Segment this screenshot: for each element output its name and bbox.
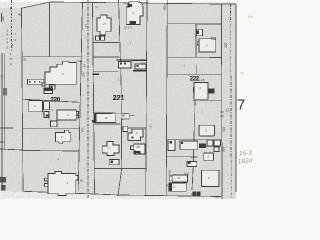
svg-text:102: 102 — [82, 72, 86, 77]
building: block220 small square — [51, 121, 58, 127]
dark fill: flat-iron lower rect — [129, 21, 136, 24]
dark fill: shed south dot — [111, 161, 114, 164]
block 220 lot line y151 — [23, 150, 79, 153]
block 221 dark building-row edge y60 — [116, 59, 146, 61]
building: block222 long shed — [180, 141, 198, 149]
block 221 lot line y42 — [93, 41, 119, 43]
street 2 right edge — [93, 2, 95, 193]
svg-text:A: A — [10, 62, 12, 66]
building: block220 big store bottom — [48, 172, 78, 196]
building: block222 dwelling n — [199, 39, 216, 52]
svg-text:N: N — [96, 5, 98, 9]
building: block222 cluster rect b — [214, 140, 221, 146]
building: block221 outbuilding a — [96, 36, 100, 40]
building: block222 dwelling s of cluster — [204, 153, 214, 160]
building: block220 se tabs — [76, 112, 78, 115]
block 221 interior lot line — [118, 0, 122, 196]
building: block221 2B left tab — [131, 146, 134, 150]
dark fill: block222 small sq left mark — [197, 31, 199, 35]
building: block220 dwelling se — [57, 110, 76, 120]
dark fill: bottom-left building blob b — [1, 185, 6, 191]
svg-text:30: 30 — [80, 178, 84, 182]
left edge lot line a — [1, 53, 3, 190]
street 1 dashed centerline — [11, 0, 13, 52]
street 4 right line — [235, 4, 237, 192]
block 221 lot line y66 — [135, 65, 147, 67]
dark fill: JF top edge — [94, 113, 111, 114]
dark fill: long shed dot — [181, 142, 183, 144]
dark fill: left margin blob — [3, 88, 7, 96]
building: block221 stepped dwelling — [102, 142, 119, 156]
faint smudge right margin low — [240, 72, 244, 74]
svg-text:40: 40 — [18, 13, 22, 17]
svg-text:318: 318 — [222, 146, 226, 152]
dark fill: small shed dot — [51, 86, 53, 88]
building: block221 shed on lot line — [123, 126, 128, 131]
building: big store left tab b — [45, 184, 49, 187]
street 1 right edge — [22, 8, 24, 191]
building: block221 outbuilding b — [101, 36, 105, 40]
building: block220 dark-top store — [44, 88, 53, 94]
building: block222 cluster rect c — [214, 147, 219, 152]
bottom neatline — [23, 191, 221, 196]
svg-text:320: 320 — [224, 42, 228, 48]
street 4 left edge — [221, 4, 224, 199]
dark fill: dark-top of block220 store — [44, 88, 52, 91]
block 221 dark segment y70.7 — [133, 70, 147, 72]
building: block221 JF store — [94, 113, 115, 122]
left edge lot line b — [3, 53, 5, 150]
dark fill: store row b dot — [137, 65, 139, 67]
block 221 lot line y57 — [93, 56, 120, 58]
svg-text:240: 240 — [1, 16, 5, 21]
walkway diagonal — [43, 113, 53, 123]
block 220 lot line y99 — [22, 99, 80, 102]
street 3 right edge — [166, 0, 167, 196]
street 2 dashed centerline — [87, 0, 89, 199]
svg-text:292: 292 — [191, 192, 196, 196]
building: block220 big upper building — [45, 62, 76, 85]
building: block220 dwelling with bay — [56, 130, 71, 143]
svg-text:10 2 4: 10 2 4 — [124, 26, 132, 30]
building: block220 tiny shed — [42, 83, 45, 86]
building: big store left tab a — [45, 178, 49, 181]
building: block222 w sliver — [170, 176, 172, 181]
building: block221 cross-plan dwelling — [97, 15, 111, 35]
dark fill: small store dot — [188, 162, 191, 164]
building: block222 dwelling sw — [169, 183, 187, 191]
street 2 left edge — [78, 2, 82, 191]
svg-text:220: 220 — [50, 96, 61, 103]
building: block221 store row b — [135, 64, 146, 69]
svg-text:102: 102 — [81, 127, 85, 132]
block 222 interior lot line x196 mid — [195, 65, 197, 74]
building: block222 dwelling n top notch — [212, 37, 215, 39]
building: block222 small square n — [197, 29, 203, 36]
building: block222 dwelling mid — [194, 82, 208, 99]
svg-text:2B: 2B — [137, 145, 141, 149]
block 221 lot line y115 segment — [128, 115, 135, 117]
building: block221 flat-iron corner building — [126, 2, 143, 25]
building: block220 porch structure a — [44, 102, 50, 110]
svg-text:27: 27 — [103, 22, 107, 26]
dark fill: L dwelling dot — [132, 136, 134, 138]
block 222 interior lot line x196 top — [195, 24, 197, 57]
building: block221 dwelling 2B — [134, 144, 145, 154]
building: block222 mid left tab — [192, 87, 195, 92]
dark fill: bottom-left building blob a — [0, 177, 6, 183]
svg-text:316: 316 — [149, 124, 153, 129]
left lot line y128 — [0, 127, 13, 129]
dark fill: 2B inner sliver — [134, 151, 136, 154]
dark fill: street2 top tick at y120 — [92, 120, 94, 122]
dark fill: store row a dots — [120, 63, 122, 65]
building: block220 shed row — [28, 79, 44, 84]
building: block220 small shed with dot — [50, 85, 56, 89]
top border line — [50, 2, 236, 4]
building: block221 store row a — [119, 62, 132, 68]
block 221 lot line y124 — [94, 123, 121, 125]
dark fill: block222 cluster dark rect — [199, 144, 206, 149]
dark fill: stepped bld bottom marks — [136, 151, 138, 153]
svg-text:290: 290 — [214, 195, 219, 199]
svg-text:40: 40 — [9, 6, 13, 10]
building: block221 shed south — [109, 159, 119, 164]
building: block220 dwelling nw — [29, 101, 43, 112]
svg-text:322: 322 — [222, 126, 226, 132]
dark fill: block222 bottom square b — [197, 192, 201, 196]
paper margins — [0, 0, 256, 199]
dark fill: block222 sw dwelling left end — [169, 183, 172, 191]
dark fill: block222 mid annex — [208, 89, 215, 94]
svg-text:44: 44 — [83, 64, 87, 68]
faint smudge right margin — [248, 16, 253, 19]
left lot line y149 — [0, 149, 23, 150]
building: block221 small rect e of JF — [121, 113, 129, 119]
map paper area — [0, 2, 236, 199]
dark fill: shed row dots — [29, 81, 31, 83]
left edge short top line — [1, 13, 3, 22]
dark fill: flat-iron upper rect — [127, 4, 131, 7]
street 4 dashed centerline — [230, 4, 233, 199]
street 3 left edge — [146, 0, 147, 196]
block 222 lot line y100 — [192, 99, 221, 101]
block 222 lot line y157 — [166, 156, 197, 158]
street4 edge tick b — [220, 115, 223, 117]
block 222 lot line y140 — [167, 139, 222, 141]
svg-text:p.18: p.18 — [199, 78, 205, 82]
svg-text:40: 40 — [166, 184, 170, 188]
svg-text:3|2: 3|2 — [141, 62, 145, 66]
scan grain overlay — [0, 2, 236, 199]
block 220 lot line y129 — [23, 128, 80, 130]
svg-text:249: 249 — [78, 59, 83, 63]
left lot line y142 — [0, 141, 4, 143]
dark fill: JF left bar — [95, 113, 97, 122]
svg-text:16-3: 16-3 — [239, 150, 253, 158]
block 222 interior lot line x192-195 — [192, 100, 195, 190]
building: block222 wide dwelling w — [172, 175, 187, 182]
building: block222 small store — [187, 161, 197, 166]
dark fill: narrow barn dot — [169, 141, 172, 144]
dark fill: porch dot — [46, 114, 48, 116]
block 221 lot line y168 — [94, 168, 146, 170]
block 221 lot line y128 — [121, 127, 147, 129]
svg-text:Q.B: Q.B — [184, 172, 189, 176]
diagonal cut top-left — [22, 2, 51, 8]
building: block221 L dwelling — [128, 129, 143, 140]
building: block222 big dwelling se — [202, 170, 220, 186]
svg-text:1F: 1F — [105, 116, 109, 120]
street4 edge tick a — [220, 111, 223, 113]
building: block222 narrow barn — [168, 140, 175, 151]
svg-text:44: 44 — [84, 24, 88, 28]
block 222 lot line y57 — [167, 56, 222, 58]
svg-text:25: 25 — [23, 58, 27, 62]
svg-text:1924: 1924 — [238, 157, 253, 165]
svg-text:7: 7 — [237, 97, 245, 114]
building: block222 n left tab — [197, 41, 199, 45]
block 221 lot line y114 — [111, 113, 121, 115]
dark line segment beside sheet number — [235, 93, 238, 111]
building: block222 rounded dwelling — [199, 125, 215, 136]
svg-text:4.0B: 4.0B — [168, 170, 172, 176]
building: block220 porch structure b — [44, 112, 49, 118]
block 221 dark segment y74.3 — [93, 73, 99, 75]
block 221 lot line y72 — [93, 71, 118, 73]
block 222 lot line y24 — [167, 23, 221, 25]
dark fill: block222 bottom square a — [192, 192, 196, 196]
dark fill: small rect e of JF dot — [123, 115, 125, 117]
block 222 lot line y74 — [167, 73, 222, 75]
block 220 lot line y56 — [22, 56, 81, 58]
block 220 vertical lot line x50 — [49, 2, 51, 57]
building: block222 cluster rect a — [207, 140, 213, 146]
